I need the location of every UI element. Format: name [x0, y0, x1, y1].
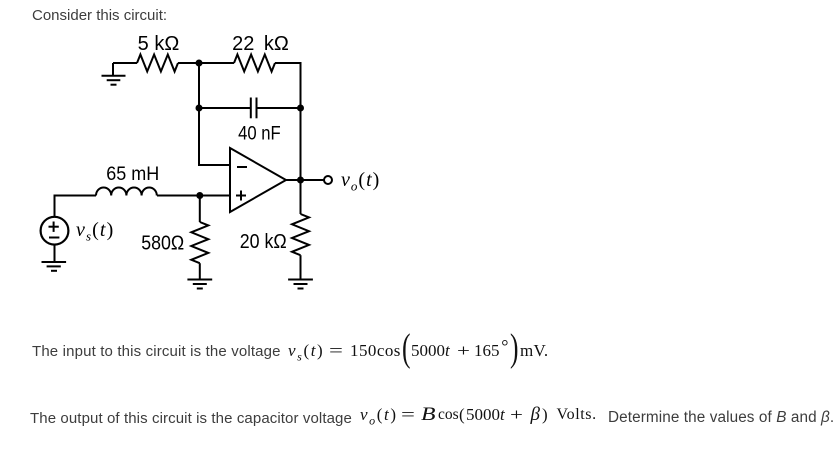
svg-text:20 kΩ: 20 kΩ: [240, 231, 287, 253]
title text: [32, 7, 167, 24]
sentence: determine values: [608, 409, 834, 427]
svg-text:40 nF: 40 nF: [238, 123, 281, 144]
resistor R3 580Ω: [191, 222, 208, 263]
wire (cap node to op-amp inverting input): [199, 108, 230, 165]
voltage source VS circle: [41, 217, 69, 245]
node (output junction): [297, 177, 304, 184]
resistor R4 20 kΩ: [292, 214, 309, 255]
node (top junction): [196, 60, 203, 67]
sentence: output description: [30, 410, 352, 427]
svg-text:22 kΩ: 22 kΩ: [232, 33, 289, 55]
capacitor C1 40 nF: [251, 98, 257, 119]
math: vo(t)=Bcos(5000t+β) Volts.: [360, 406, 398, 426]
math: vs(t)=150cos(5000t+165°) mV.: [288, 342, 324, 362]
wire (top node down to cap node): [198, 63, 200, 108]
wire (op-amp output to open terminal): [286, 179, 324, 181]
source minus symbol: [49, 237, 59, 239]
wire (plus node down to R3): [199, 196, 201, 223]
svg-text:vo(t): vo(t): [341, 169, 380, 194]
ground (under R4): [288, 255, 313, 288]
source plus symbol: [49, 222, 59, 232]
wire (R2 to right rail corner): [275, 63, 301, 108]
wire (ground to R1): [113, 62, 137, 64]
sentence: input description: [32, 343, 281, 360]
wire (R1 to R2 with node): [178, 62, 234, 64]
node (cap right): [297, 105, 304, 112]
ground (under source): [42, 245, 67, 271]
op-amp U1: [230, 148, 286, 212]
svg-text:vs(t): vs(t): [76, 219, 114, 244]
op-amp minus symbol: [237, 166, 247, 168]
wire (inductor to plus node): [157, 195, 230, 197]
svg-text:5 kΩ: 5 kΩ: [138, 33, 180, 55]
resistor R2 22 kΩ: [234, 55, 275, 72]
wire (cap left lead): [199, 107, 250, 109]
wire (cap right lead): [257, 107, 301, 109]
wire (source up to inductor): [55, 196, 97, 217]
svg-text:65 mH: 65 mH: [106, 164, 159, 185]
wire (right rail: cap node down through output to R4): [300, 108, 302, 214]
op-amp plus symbol: [236, 191, 246, 201]
resistor R1 5 kΩ: [137, 55, 178, 72]
node (plus input junction): [196, 192, 203, 199]
inductor L1 65 mH: [96, 188, 157, 196]
open terminal circle: [324, 176, 332, 184]
svg-text:580Ω: 580Ω: [141, 233, 184, 255]
ground (top-left input ground): [102, 63, 126, 85]
ground (under R3): [187, 263, 212, 288]
node (cap left): [196, 105, 203, 112]
